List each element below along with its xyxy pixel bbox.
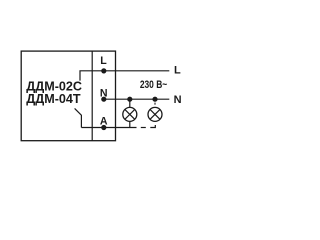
svg-text:L: L — [100, 55, 107, 67]
node lamp2 on N — [152, 97, 157, 102]
terminal N dot — [101, 97, 106, 102]
svg-text:N: N — [174, 94, 182, 106]
terminal L dot — [101, 68, 106, 73]
wire lamp2 bottom dashed — [141, 127, 146, 129]
wire lamp2 top dash — [154, 103, 156, 105]
internal wire from switch to terminal L — [80, 71, 169, 81]
wire A (switched line) — [81, 127, 136, 129]
svg-text:230 В~: 230 В~ — [140, 79, 168, 91]
wire lamp1 top — [129, 99, 131, 107]
terminal strip divider — [91, 51, 93, 141]
node lamp1 on N — [127, 97, 132, 102]
device box ДДМ — [21, 51, 115, 141]
lamp EL2 (optional) — [148, 107, 162, 121]
wire N — [102, 98, 170, 100]
switch blade S1 — [75, 108, 82, 127]
svg-text:ДДМ-04Т: ДДМ-04Т — [26, 92, 81, 106]
lamp EL1 — [123, 107, 137, 121]
wire lamp1 bottom — [129, 121, 131, 127]
terminal A dot — [101, 125, 106, 130]
svg-text:L: L — [174, 65, 181, 77]
